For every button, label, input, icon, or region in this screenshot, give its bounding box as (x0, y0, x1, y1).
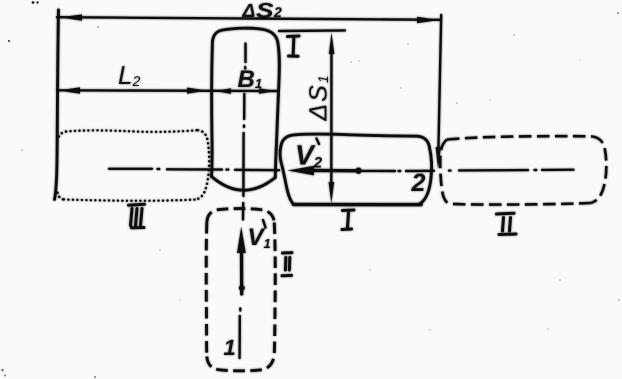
svg-text:S: S (256, 0, 274, 23)
svg-text:1: 1 (224, 335, 236, 360)
svg-text:2: 2 (411, 169, 426, 197)
svg-text:Δ: Δ (242, 1, 256, 22)
svg-text:2: 2 (273, 4, 282, 20)
